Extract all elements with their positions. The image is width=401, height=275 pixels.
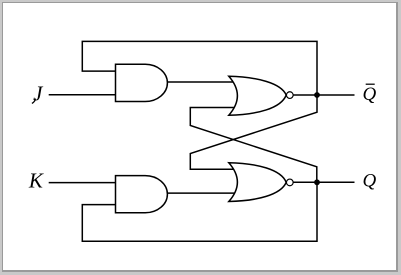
wire NOR2 output to Q node [293, 181, 317, 183]
wire AND1 output to NOR1 upper input [167, 81, 235, 83]
wire NOR1 output to Qbar node [293, 94, 317, 96]
NOR gate U4 (bottom) body [229, 163, 286, 202]
NOR gate U4 bubble [286, 179, 293, 186]
AND gate U3 (bottom, K input) [116, 176, 168, 213]
wire top feedback Qbar node to AND1 upper input [82, 41, 317, 95]
wire AND2 output to NOR2 lower input [167, 192, 235, 194]
wire Q node to NOR1 lower input (diagonal) [190, 108, 316, 183]
wire J input [49, 94, 116, 96]
wire bottom feedback Q node to AND2 lower input [82, 182, 317, 241]
wire Qbar node to label [317, 94, 355, 96]
junction node Qbar [314, 92, 320, 98]
AND gate U1 (top, J input) [116, 64, 168, 101]
label J descender tail [32, 99, 36, 104]
svg-text:Q: Q [363, 84, 377, 105]
NOR gate U2 bubble [286, 92, 293, 99]
wire K input [49, 182, 116, 184]
junction node Q [314, 179, 320, 185]
wire Qbar node to NOR2 upper input (diagonal) [190, 95, 317, 169]
svg-text:Q: Q [363, 171, 377, 192]
overbar of Qbar [366, 83, 375, 85]
svg-text:K: K [28, 169, 44, 193]
wire Q node to label [317, 181, 355, 183]
NOR gate U2 (top) body [229, 76, 286, 115]
